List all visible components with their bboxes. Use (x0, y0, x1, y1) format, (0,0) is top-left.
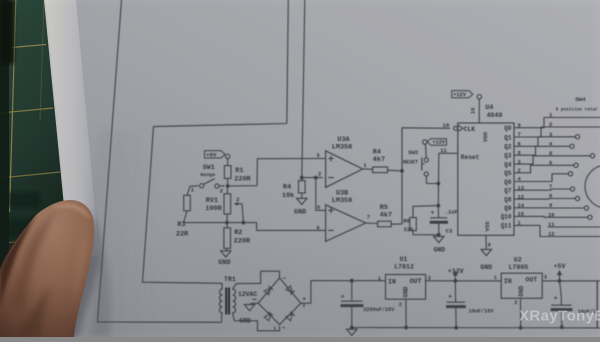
wire mains left leg to TR1 primary bottom (98, 0, 222, 322)
U4 output Q8 pin 12 to SW4 (504, 194, 579, 203)
op-amp U3B LM358 (316, 190, 370, 242)
resistor R2 220R (218, 223, 251, 267)
wire node A to pin 3 of U3A (228, 159, 326, 187)
switch SW4 5 position rotary (548, 96, 600, 238)
resistor R5 4k7 (366, 204, 402, 227)
transformer TR1 (220, 276, 258, 314)
wire long vertical to op-amp inverting node (302, 0, 305, 178)
junction R4 output (400, 169, 404, 173)
U4 output Q9 pin 14 to SW4 (504, 203, 588, 212)
U4 output Q1 pin 7 to SW4 (504, 127, 600, 141)
wire bottom rail to pin 6 of U3B (184, 223, 326, 231)
junction rail cap2 (454, 326, 458, 330)
junction +5V node (558, 279, 562, 283)
wire node to pin 2 (302, 177, 323, 179)
finger shadow on paper (58, 212, 101, 337)
U4 output Q10 pin 15 to SW4 (501, 212, 592, 221)
wire U4 reset pin 11 net (438, 153, 458, 205)
finger (0, 200, 94, 337)
potentiometer RV1 100R (205, 186, 243, 223)
U4 output Q0 pin 9 to SW4 (504, 118, 600, 133)
wire mains right leg: top to TR1 primary top (143, 0, 289, 289)
paper side shading (0, 0, 1, 1)
junction cap input node (350, 279, 354, 283)
resistor R6 22k (403, 206, 439, 235)
wire TR1 secondary bottom to bridge (233, 313, 280, 331)
wire TR1 secondary top to bridge (233, 271, 280, 289)
U4 output Q4 pin 3 to SW4 (504, 154, 594, 169)
ground at bridge negative (239, 303, 258, 324)
capacitor C3 1uF (430, 206, 458, 235)
U4 output Q2 pin 6 to SW4 (504, 135, 579, 151)
wire off-page right edge (596, 281, 598, 328)
op-amp U3A LM358 (316, 136, 366, 187)
U4 output Q7 pin 13 to SW4 (504, 185, 574, 194)
resistor R4 4k7 (output) (363, 149, 402, 173)
junction +12V node (453, 279, 457, 283)
resistor R1 220R (224, 159, 251, 186)
wire U4 ground pin 8 (480, 235, 492, 270)
junction rail U2 gnd (519, 326, 523, 330)
node A: SW1/R1/RV1 junction (226, 184, 230, 188)
U4 output Q11 pin 1 to SW4 (501, 221, 600, 237)
switch SW2 RESET (403, 139, 447, 184)
resistor R3 22R (176, 195, 190, 238)
junction C3 bottom (437, 233, 441, 237)
ground below C3 (434, 236, 444, 242)
+12V arrow flag (448, 268, 464, 281)
resistor R4 10k (282, 178, 307, 217)
node junction R4/pin2 (300, 176, 304, 180)
wire node to pin 5 of U3B (316, 178, 326, 211)
junction RV1 bottom / R2 (225, 221, 229, 225)
paper edge highlight (44, 0, 99, 258)
wire U1 ground pin (405, 299, 407, 327)
wire U2 out rail (542, 280, 600, 282)
+12V power flag for U4 pin 16 (452, 91, 482, 123)
wire clock net to U4 CLK (402, 128, 450, 224)
cutting mat (0, 0, 74, 337)
bridge rectifier (252, 276, 306, 332)
capacitor 2200uF/25V (341, 281, 396, 328)
capacitor 10uF/16V (446, 281, 494, 328)
junction rail U1 gnd (404, 326, 408, 330)
SW4 position 11 row (548, 226, 600, 228)
capacitor 10uF output (551, 281, 597, 327)
regulator U1 L7812 (378, 256, 431, 308)
junction SW2/reset (436, 182, 440, 186)
ground symbol on rail (347, 329, 357, 335)
wire U1 out rail (426, 280, 502, 282)
IC U4 4040 counter (443, 104, 514, 236)
switch SW1 Range (187, 164, 225, 195)
regulator U2 L7805 (494, 256, 547, 306)
U4 output Q6 pin 4 to SW4 (504, 172, 572, 186)
U4 output Q5 pin 2 to SW4 (504, 163, 578, 177)
+5V power flag (205, 151, 230, 159)
junction rail cap1 (350, 326, 354, 330)
junction reset node (436, 204, 440, 208)
U4 output Q3 pin 5 to SW4 (504, 144, 574, 159)
ground rail bottom (352, 327, 600, 329)
junction RV1 wiper (242, 221, 246, 225)
wire U2 ground pin (519, 298, 521, 328)
junction rail cap3 (560, 325, 564, 329)
wire bridge + output to U1 (301, 281, 386, 304)
+5V arrow flag (554, 263, 566, 281)
